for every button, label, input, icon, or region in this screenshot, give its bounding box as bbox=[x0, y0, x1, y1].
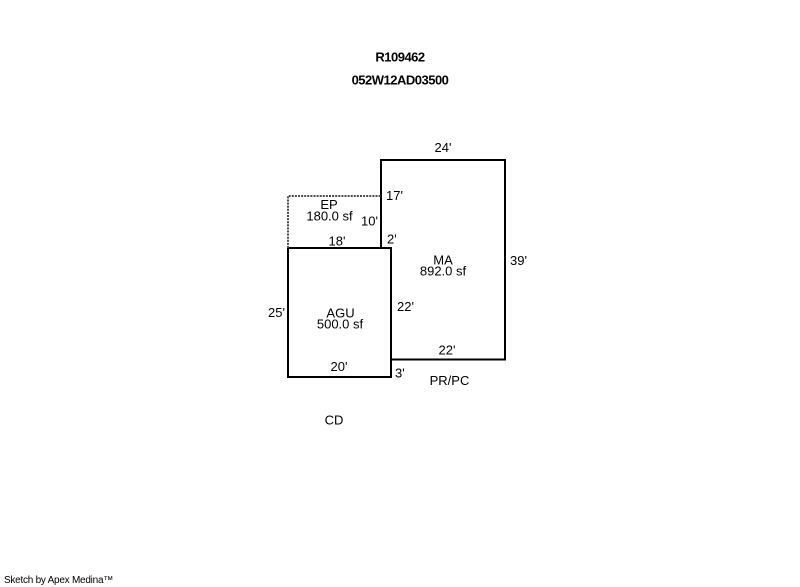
svg-text:CD: CD bbox=[325, 413, 344, 428]
svg-text:3': 3' bbox=[395, 366, 405, 381]
svg-text:180.0 sf: 180.0 sf bbox=[306, 209, 353, 224]
svg-text:39': 39' bbox=[510, 253, 527, 268]
svg-text:Sketch by Apex Medina™: Sketch by Apex Medina™ bbox=[4, 575, 113, 586]
svg-text:R109462: R109462 bbox=[375, 50, 425, 65]
svg-text:892.0 sf: 892.0 sf bbox=[420, 264, 467, 279]
svg-text:22': 22' bbox=[439, 343, 456, 358]
svg-text:500.0 sf: 500.0 sf bbox=[317, 317, 364, 332]
svg-text:25': 25' bbox=[268, 305, 285, 320]
svg-text:18': 18' bbox=[329, 234, 346, 249]
svg-text:22': 22' bbox=[397, 299, 414, 314]
svg-text:PR/PC: PR/PC bbox=[430, 373, 470, 388]
svg-text:2': 2' bbox=[387, 232, 397, 247]
svg-text:17': 17' bbox=[386, 188, 403, 203]
svg-text:10': 10' bbox=[361, 214, 378, 229]
svg-text:052W12AD03500: 052W12AD03500 bbox=[352, 73, 449, 88]
svg-text:20': 20' bbox=[331, 359, 348, 374]
svg-text:24': 24' bbox=[435, 140, 452, 155]
